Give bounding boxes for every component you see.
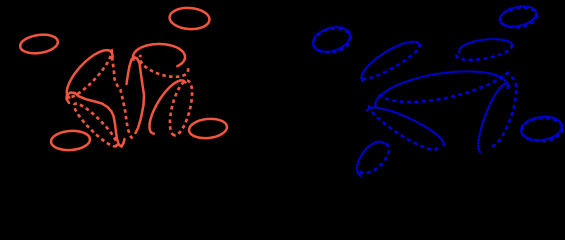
petal B2d dashed bbox=[369, 104, 437, 149]
petal F1 solid bbox=[133, 44, 185, 66]
petal B4 dotted bbox=[357, 142, 384, 176]
ellipse Wd dashed bbox=[378, 72, 509, 102]
petal B1 dotted bbox=[361, 42, 419, 81]
petal DV dashed bbox=[112, 57, 133, 140]
small ellipse E2 bbox=[169, 7, 210, 31]
small ellipse B7 dotted bbox=[520, 114, 564, 142]
small ellipse E4 bbox=[188, 117, 228, 140]
petal B1d dashed bbox=[362, 44, 420, 79]
petal D3 dashed bbox=[165, 79, 196, 138]
petal B4d dashed bbox=[359, 144, 389, 173]
petal D1 dashed bbox=[66, 49, 112, 98]
small ellipse B7 dashed bbox=[521, 117, 563, 142]
petal F1d dashed bbox=[140, 55, 188, 77]
petal P3 solid bbox=[150, 80, 186, 133]
small ellipse B6 dashed bbox=[499, 6, 538, 30]
ellipse W dotted bbox=[375, 71, 508, 107]
small ellipse B6 dotted bbox=[498, 3, 538, 30]
small ellipse E1 bbox=[19, 32, 59, 55]
small ellipse B5 dotted bbox=[310, 23, 353, 56]
petal B2 dotted bbox=[367, 108, 444, 146]
petal B8 dotted bbox=[459, 39, 513, 52]
petal B3 dotted bbox=[478, 83, 509, 152]
petal B8d dashed bbox=[456, 45, 511, 60]
small ellipse E3 bbox=[50, 130, 90, 152]
petal V1 solid bbox=[127, 57, 145, 133]
petal B3d dashed bbox=[489, 78, 516, 147]
petal D2 dashed bbox=[70, 100, 121, 151]
petal P2 solid bbox=[67, 93, 125, 147]
petal P1 solid bbox=[67, 50, 113, 97]
small ellipse B5 dashed bbox=[311, 25, 353, 55]
